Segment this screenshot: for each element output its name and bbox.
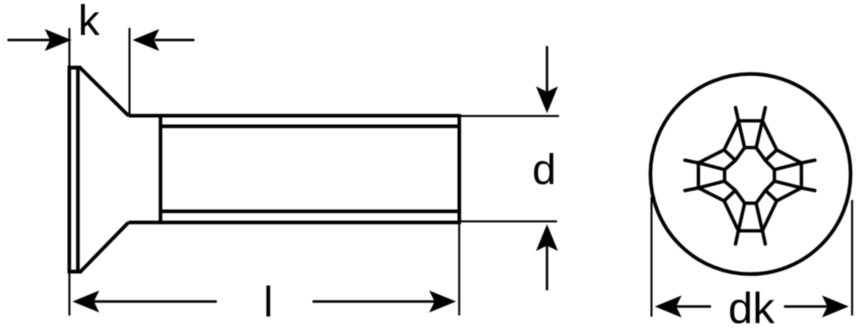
recess bottom arm [724, 201, 777, 244]
dk arrow left (points left) [655, 296, 682, 318]
d arrow bottom (points up) [536, 224, 558, 251]
head front view circle [650, 74, 850, 274]
extension line d bottom [461, 220, 557, 222]
dk dim line right [784, 305, 827, 307]
shaft top outer line [129, 114, 460, 118]
svg-text:dk: dk [728, 284, 775, 328]
pozidriv recess [685, 108, 815, 245]
recess top arm [724, 108, 777, 150]
extension line left (k/l datum through head face) [68, 28, 70, 316]
svg-text:k: k [78, 0, 100, 45]
k dim line right [155, 39, 195, 41]
extension line k right (cone-shaft junction) [129, 28, 131, 115]
l arrow left (points left) [73, 291, 100, 313]
dk arrow right (points right) [822, 296, 849, 318]
k arrow left (points right) [45, 29, 72, 51]
shaft bottom outer line [129, 221, 460, 225]
dimension d [536, 46, 558, 290]
dimension dk [652, 197, 853, 318]
svg-text:l: l [264, 278, 274, 326]
dimension k [7, 29, 194, 51]
extension line l right (below shaft end) [458, 224, 460, 315]
l dim line left segment [93, 300, 217, 302]
screw side view [68, 28, 559, 316]
head face line inner [76, 67, 80, 273]
svg-text:d: d [532, 146, 556, 194]
dk extension line right [851, 200, 853, 316]
d arrow top line [546, 46, 548, 92]
recess rib bottom-left [724, 181, 745, 203]
d arrow bottom line [546, 233, 548, 290]
thread start line [159, 114, 163, 224]
l arrow right (points right) [429, 291, 456, 313]
recess left arm [685, 150, 725, 201]
dimension l [73, 291, 457, 313]
dk extension line left [651, 197, 653, 317]
recess right arm [774, 150, 815, 201]
l dim line right segment [313, 300, 436, 302]
recess rib top-left [724, 148, 745, 170]
cone bottom diagonal [81, 222, 129, 271]
shaft end line [457, 114, 461, 224]
d arrow top (points down) [536, 86, 558, 113]
thread inner top line [161, 125, 458, 129]
dk dim line left [676, 305, 711, 307]
extension line d top [461, 115, 559, 117]
recess rib bottom-right [756, 181, 777, 203]
k arrow right (points left) [133, 29, 160, 51]
cone top diagonal [80, 68, 129, 116]
head top edge [68, 66, 82, 70]
head bottom edge [68, 270, 82, 274]
recess rib top-right [756, 148, 777, 170]
thread inner bottom line [161, 210, 458, 214]
k dim line left [7, 39, 50, 41]
head face line outer [68, 66, 72, 274]
